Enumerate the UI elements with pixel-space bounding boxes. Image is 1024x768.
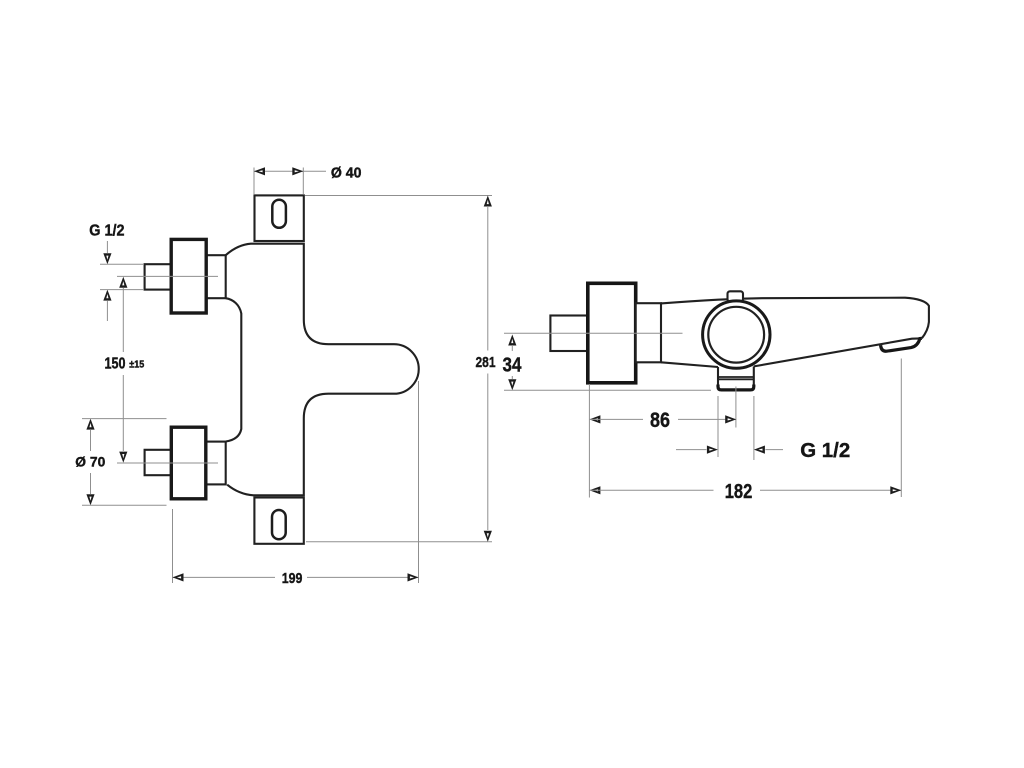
- svg-text:G 1/2: G 1/2: [89, 223, 124, 240]
- top tab: [728, 291, 744, 301]
- slot hole top: [272, 200, 286, 228]
- dimension 34: [508, 335, 516, 346]
- outlet below: [717, 367, 719, 388]
- centerline top inlet: [117, 275, 218, 277]
- wall bracket bottom: [254, 498, 303, 544]
- spout bottom edge right of outlet: [754, 338, 920, 366]
- dimension 86 extension lines: [588, 384, 590, 498]
- dimension 182 extension line right: [900, 359, 902, 498]
- dimension 86 line: [589, 415, 600, 423]
- body outline (top bracket base, right side with cartridge bump, bottom bracket base): [226, 244, 419, 496]
- bottom inlet pipe stub: [145, 450, 172, 475]
- bottom inlet nut: [171, 427, 206, 499]
- dial outer circle: [703, 301, 770, 368]
- top inlet nut: [171, 239, 206, 313]
- dimension G 1/2 arrows: [676, 449, 707, 451]
- dimension 34 bottom extension: [504, 389, 711, 391]
- svg-text:34: 34: [503, 354, 522, 377]
- connector ring: [636, 303, 661, 362]
- svg-text:G 1/2: G 1/2: [800, 439, 850, 462]
- dimension 199 line: [173, 576, 276, 578]
- wall bracket top: [255, 195, 304, 241]
- dimension 150 ±15: [119, 277, 127, 288]
- svg-text:±15: ±15: [129, 360, 144, 371]
- svg-text:281: 281: [476, 354, 496, 371]
- dimension 199 extension lines: [172, 509, 174, 583]
- centerline handle axis: [504, 332, 683, 334]
- spout bottom edge left of outlet: [661, 362, 718, 367]
- dimension 182 line: [589, 486, 600, 494]
- top inlet connector: [206, 255, 226, 298]
- svg-text:86: 86: [650, 409, 670, 432]
- svg-text:182: 182: [725, 481, 753, 503]
- svg-text:199: 199: [282, 570, 303, 587]
- centerline bottom inlet: [117, 462, 218, 464]
- handle pipe stub: [550, 316, 587, 352]
- bottom inlet connector: [206, 442, 226, 485]
- slot hole bottom: [272, 510, 286, 539]
- dial inner circle: [708, 307, 764, 363]
- body left edge between inlets: [226, 298, 242, 441]
- top inlet pipe stub: [145, 264, 172, 289]
- handle knob: [588, 283, 636, 383]
- spout nozzle: [881, 338, 922, 351]
- outlet bottom cap: [718, 385, 754, 390]
- dimension 281 line: [484, 196, 492, 207]
- svg-text:Ø 40: Ø 40: [331, 166, 362, 182]
- body/spout outline top: [661, 298, 929, 339]
- svg-text:Ø 70: Ø 70: [75, 454, 105, 470]
- dimension G 1/2 (outlet) extension lines: [717, 396, 719, 457]
- svg-text:150: 150: [105, 356, 126, 373]
- dimension Ø40 extension lines: [253, 168, 255, 195]
- dimension 281 extension lines: [305, 195, 492, 197]
- dimension Ø40 line: [254, 170, 303, 172]
